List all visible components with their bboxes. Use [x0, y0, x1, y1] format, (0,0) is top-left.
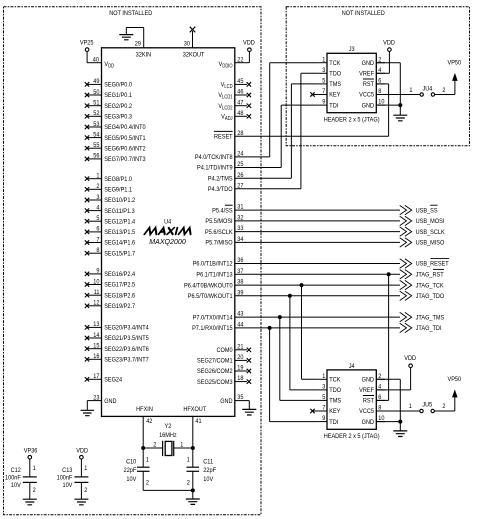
svg-text:P4.1/TDI/INT9: P4.1/TDI/INT9 — [197, 164, 233, 172]
svg-text:JU5: JU5 — [422, 401, 432, 409]
svg-text:VP36: VP36 — [24, 447, 38, 455]
J3 pin 7 KEY — [310, 88, 340, 99]
wire TDI (J3 pin9 to pin 25) — [235, 105, 319, 167]
pin 39 P6.5/T0/WKOUT1 — [188, 289, 244, 300]
svg-text:3: 3 — [96, 193, 100, 201]
svg-text:SEG13/P1.5: SEG13/P1.5 — [104, 229, 135, 237]
svg-text:SEG9/P1.1: SEG9/P1.1 — [104, 186, 132, 194]
dashed box NOT INSTALLED (J3 JTAG header section) — [286, 7, 469, 146]
svg-text:16MHz: 16MHz — [159, 432, 177, 440]
svg-text:USB_SCLK: USB_SCLK — [416, 228, 446, 236]
svg-text:10V: 10V — [62, 481, 73, 489]
svg-text:P7.0/TX0/INT14: P7.0/TX0/INT14 — [193, 314, 233, 322]
wire RESET net (pin 28 to J3 RST) — [235, 84, 389, 136]
svg-text:VP25: VP25 — [80, 39, 94, 47]
svg-text:HEADER 2 x 5 (JTAG): HEADER 2 x 5 (JTAG) — [324, 432, 380, 440]
wire crystal caps to ground — [143, 490, 193, 499]
svg-text:100nF: 100nF — [57, 474, 73, 482]
pin 56 SEG7/P0.7/INT3 (no connect) — [85, 152, 146, 163]
pin 32 P5.5/MOSI — [205, 214, 244, 225]
ground (J4) — [393, 431, 407, 437]
pin 41 HFXOUT lead — [193, 416, 202, 448]
svg-text:VCC5: VCC5 — [359, 91, 374, 99]
svg-text:P5.6/SCLK: P5.6/SCLK — [205, 228, 233, 236]
pin 44 P7.1/RX0/INT15 — [192, 321, 244, 332]
svg-text:VDD: VDD — [243, 39, 255, 47]
pin 18 SEG25/COM3 (no connect) — [197, 375, 251, 386]
pin 38 P6.4/T0B/WKOUT0 — [184, 278, 244, 289]
svg-text:SEG19/P2.7: SEG19/P2.7 — [104, 303, 135, 311]
svg-text:HEADER 2 x 5 (JTAG): HEADER 2 x 5 (JTAG) — [324, 116, 380, 124]
pin 29 32KIN wire to ground — [126, 28, 143, 48]
svg-text:VDD: VDD — [383, 39, 395, 47]
svg-text:VREF: VREF — [359, 70, 374, 78]
svg-text:10V: 10V — [126, 476, 137, 484]
svg-text:7: 7 — [96, 236, 100, 244]
svg-text:GND: GND — [104, 397, 117, 405]
J4 pin 8 VCC5 — [359, 404, 385, 415]
svg-text:TDO: TDO — [329, 387, 341, 395]
svg-text:VDD: VDD — [76, 447, 88, 455]
svg-text:VCC5: VCC5 — [359, 408, 374, 416]
pin 54 SEG5/P0.5/INT1 (no connect) — [85, 131, 146, 142]
pin 51 SEG2/P0.2 (no connect) — [85, 99, 133, 110]
pin 10 SEG17/P2.5 (no connect) — [85, 278, 136, 289]
pin 36 P6.0/T1B/INT12 — [193, 257, 244, 268]
svg-text:J3: J3 — [349, 46, 355, 54]
wire TMS (J3 pin5 to pin 26) — [235, 84, 319, 178]
svg-text:RST: RST — [363, 81, 374, 89]
svg-text:5: 5 — [322, 77, 326, 85]
wire J4 GND bus to ground — [376, 379, 400, 431]
svg-text:SEG7/P0.7/INT3: SEG7/P0.7/INT3 — [104, 156, 146, 164]
svg-text:SEG2/P0.2: SEG2/P0.2 — [104, 102, 132, 110]
pin 19 SEG26/COM2 (no connect) — [197, 364, 251, 375]
svg-text:2: 2 — [33, 487, 37, 495]
pin 55 SEG6/P0.6/INT2 (no connect) — [85, 142, 146, 153]
svg-text:1: 1 — [180, 441, 184, 449]
svg-text:TCK: TCK — [329, 376, 341, 384]
pin 7 SEG14/P1.6 (no connect) — [85, 236, 136, 247]
svg-text:SEG1/P0.1: SEG1/P0.1 — [104, 92, 132, 100]
svg-text:P4.0/TCK/INT8: P4.0/TCK/INT8 — [195, 154, 233, 162]
svg-text:NOT INSTALLED: NOT INSTALLED — [109, 10, 153, 18]
svg-text:6: 6 — [96, 225, 100, 233]
svg-text:SEG22/P3.6/INT6: SEG22/P3.6/INT6 — [104, 345, 149, 353]
pin 13 SEG20/P3.4/INT4 (no connect) — [85, 321, 149, 332]
svg-text:Y2: Y2 — [164, 422, 171, 430]
pin 8 SEG15/P1.7 (no connect) — [85, 247, 136, 258]
J3 pin 6 RST — [363, 77, 385, 88]
svg-text:47: 47 — [237, 99, 244, 107]
svg-text:35: 35 — [237, 394, 244, 402]
svg-text:GND: GND — [362, 59, 375, 67]
pin 16 SEG23/P3.7/INT7 (no connect) — [85, 353, 149, 364]
pin 33 P5.6/SCLK — [205, 225, 244, 236]
svg-text:SEG17/P2.5: SEG17/P2.5 — [104, 281, 135, 289]
junction (HFXOUT/Y2) — [191, 446, 195, 450]
svg-text:SEG24: SEG24 — [104, 376, 122, 384]
junction (J3 GND) — [398, 103, 402, 107]
pin 34 P5.7/MISO — [205, 236, 244, 247]
junction (JTAG_TMS) — [278, 315, 282, 319]
svg-text:6: 6 — [378, 77, 382, 85]
svg-text:2: 2 — [96, 183, 100, 191]
svg-text:1: 1 — [96, 172, 100, 180]
svg-text:2: 2 — [442, 86, 446, 94]
J3 pin 2 GND — [362, 56, 385, 67]
pin 25 P4.1/TDI/INT9 — [197, 161, 244, 172]
pin 20 SEG27/COM1 (no connect) — [197, 354, 251, 365]
pin 5 SEG12/P1.4 (no connect) — [85, 215, 136, 226]
svg-text:P4.2/TMS: P4.2/TMS — [208, 175, 233, 183]
svg-text:53: 53 — [93, 120, 100, 128]
svg-text:P5.4/SS: P5.4/SS — [212, 207, 232, 215]
capacitor C10 22pF 10V — [124, 448, 150, 490]
IC U4 MAXQ2000 body — [102, 48, 235, 417]
svg-text:JTAG_RST: JTAG_RST — [416, 271, 444, 279]
svg-text:7: 7 — [322, 88, 326, 96]
power arrow VP50 (JU4) — [435, 59, 462, 94]
ground (32KIN) — [119, 35, 133, 40]
svg-text:45: 45 — [237, 78, 244, 86]
pin 28 RESET — [214, 129, 244, 140]
pin 1 SEG8/P1.0 (no connect) — [85, 172, 133, 183]
pin 2 SEG9/P1.1 (no connect) — [85, 183, 133, 194]
svg-text:NOT INSTALLED: NOT INSTALLED — [342, 10, 386, 18]
svg-text:USB_MOSI: USB_MOSI — [416, 218, 445, 226]
pin 46 VLCD1 (no connect) — [218, 88, 251, 100]
net JTAG_RST (wire, chevron, label) — [235, 269, 444, 279]
svg-text:C10: C10 — [126, 458, 137, 466]
svg-text:1: 1 — [322, 372, 326, 380]
jumper JU4 — [385, 85, 446, 96]
svg-text:SEG6/P0.6/INT2: SEG6/P0.6/INT2 — [104, 145, 146, 153]
pin 24 P4.0/TCK/INT8 — [195, 150, 244, 161]
svg-text:VDD: VDD — [404, 355, 416, 363]
J4 pin 5 TMS — [319, 394, 341, 405]
wire JTAG_RST to J4 RST — [376, 274, 388, 400]
ground (C13) — [74, 499, 88, 505]
svg-text:42: 42 — [146, 417, 153, 425]
svg-text:50: 50 — [93, 88, 100, 96]
net JTAG_TDO (wire, chevron, label) — [235, 291, 445, 300]
svg-text:5: 5 — [322, 394, 326, 402]
svg-text:P6.1/T1/INT13: P6.1/T1/INT13 — [196, 271, 233, 279]
svg-text:1: 1 — [409, 403, 413, 411]
pin 6 SEG13/P1.5 (no connect) — [85, 225, 136, 236]
svg-text:MAXQ2000: MAXQ2000 — [149, 237, 186, 246]
svg-text:29: 29 — [135, 40, 142, 48]
svg-text:JTAG_TCK: JTAG_TCK — [416, 282, 445, 290]
pin 53 SEG4/P0.4/INT0 (no connect) — [85, 120, 146, 131]
svg-text:1: 1 — [322, 56, 326, 64]
svg-text:5: 5 — [96, 215, 100, 223]
svg-text:100nF: 100nF — [5, 474, 21, 482]
svg-text:32KIN: 32KIN — [136, 51, 151, 59]
svg-text:8: 8 — [378, 88, 382, 96]
svg-text:VP50: VP50 — [447, 376, 461, 384]
svg-text:11: 11 — [94, 289, 100, 297]
svg-text:SEG20/P3.4/INT4: SEG20/P3.4/INT4 — [104, 324, 149, 332]
svg-text:6: 6 — [378, 394, 382, 402]
wire TCK (J3 pin1 to pin 24) — [235, 63, 319, 157]
VDD terminal (J3 VREF) — [376, 39, 395, 73]
svg-text:4: 4 — [96, 204, 100, 212]
jumper JU5 — [385, 401, 446, 413]
svg-text:9: 9 — [322, 98, 326, 106]
svg-text:10V: 10V — [11, 481, 22, 489]
pin 3 SEG10/P1.2 (no connect) — [85, 193, 136, 204]
J4 pin 9 TDI — [319, 415, 339, 426]
net JTAG_TDI (wire, chevron, label) — [235, 323, 442, 332]
svg-text:2: 2 — [153, 441, 157, 449]
svg-text:8: 8 — [96, 247, 100, 255]
pin 52 SEG3/P0.3 (no connect) — [85, 110, 133, 121]
J4 pin 1 TCK — [319, 372, 341, 383]
svg-text:17: 17 — [93, 373, 100, 381]
net JTAG_TCK (wire, chevron, label) — [235, 280, 445, 289]
svg-text:SEG8/P1.0: SEG8/P1.0 — [104, 175, 132, 183]
pin 14 SEG21/P3.5/INT5 (no connect) — [85, 331, 149, 342]
svg-text:SEG15/P1.7: SEG15/P1.7 — [104, 250, 135, 258]
svg-text:RESET: RESET — [214, 133, 233, 141]
svg-text:52: 52 — [93, 110, 100, 118]
pin 47 VLCD2 (no connect) — [218, 99, 251, 111]
J3 pin 1 TCK — [319, 56, 341, 67]
ground (C12) — [23, 499, 37, 505]
svg-text:22pF: 22pF — [203, 466, 216, 474]
wire J3 GND bus to ground — [376, 63, 400, 115]
junction (JTAG_RST) — [387, 272, 391, 276]
pin 17 SEG24 (no connect) — [85, 373, 123, 384]
junction (JTAG_TCK) — [300, 283, 304, 287]
svg-text:21: 21 — [237, 343, 244, 351]
J3 pin 9 TDI — [319, 98, 339, 109]
svg-text:C11: C11 — [203, 458, 213, 466]
svg-text:HFXOUT: HFXOUT — [183, 406, 206, 414]
pin 27 P4.3/TDO — [208, 182, 244, 193]
svg-text:JTAG_TMS: JTAG_TMS — [416, 314, 445, 322]
svg-text:3: 3 — [322, 383, 326, 391]
J3 pin 8 VCC5 — [359, 88, 385, 99]
J3 pin 4 VREF — [359, 66, 385, 77]
pin 23 GND with ground — [87, 394, 117, 410]
svg-text:12: 12 — [93, 299, 100, 307]
svg-text:22: 22 — [237, 56, 244, 64]
svg-text:P7.1/RX0/INT15: P7.1/RX0/INT15 — [192, 325, 233, 333]
svg-text:7: 7 — [322, 404, 326, 412]
svg-text:TDI: TDI — [329, 102, 338, 110]
pin 35 GND with ground — [220, 394, 249, 410]
pin 15 SEG22/P3.6/INT6 (no connect) — [85, 342, 149, 353]
svg-text:SEG14/P1.6: SEG14/P1.6 — [104, 239, 135, 247]
J4 pin 4 VREF — [359, 383, 385, 394]
ground (pin 35) — [242, 409, 256, 415]
svg-text:RST: RST — [363, 397, 374, 405]
junction (crystal ground) — [191, 488, 195, 492]
net USB_MISO (wire, chevron, label) — [235, 238, 445, 247]
svg-text:10V: 10V — [203, 476, 214, 484]
ground (crystal) — [186, 499, 200, 504]
J4 pin 2 GND — [362, 372, 385, 383]
pin 37 P6.1/T1/INT13 — [196, 267, 244, 278]
svg-text:JTAG_TDI: JTAG_TDI — [416, 325, 442, 333]
dashed box NOT INSTALLED (MCU section) — [4, 7, 262, 515]
svg-text:SEG3/P0.3: SEG3/P0.3 — [104, 113, 132, 121]
svg-text:SEG5/P0.5/INT1: SEG5/P0.5/INT1 — [104, 134, 146, 142]
svg-text:1: 1 — [33, 465, 37, 473]
svg-text:J4: J4 — [349, 362, 355, 370]
ground (pin 23) — [81, 410, 95, 415]
J4 pin 3 TDO — [319, 383, 341, 394]
svg-text:40: 40 — [93, 56, 100, 64]
svg-text:SEG23/P3.7/INT7: SEG23/P3.7/INT7 — [104, 356, 149, 364]
svg-text:TCK: TCK — [329, 59, 341, 67]
net USB_MOSI (wire, chevron, label) — [235, 216, 445, 225]
power arrow VP50 (JU5) — [434, 376, 461, 411]
svg-text:COM0: COM0 — [217, 347, 234, 355]
J3 pin 3 TDO — [319, 66, 341, 77]
junction (J4 GND) — [398, 420, 402, 424]
svg-text:USB_RESET: USB_RESET — [416, 260, 449, 268]
svg-text:KEY: KEY — [329, 408, 340, 416]
svg-text:16: 16 — [93, 353, 100, 361]
MAXIM logo — [144, 228, 192, 235]
net USB_SS (wire, chevron, label) — [235, 205, 438, 215]
svg-text:P4.3/TDO: P4.3/TDO — [208, 186, 233, 194]
pin 9 SEG16/P2.4 (no connect) — [85, 267, 136, 278]
svg-text:JTAG_TDO: JTAG_TDO — [416, 293, 445, 301]
J3 pin 10 GND — [362, 98, 385, 109]
svg-text:TDI: TDI — [329, 418, 338, 426]
svg-text:1: 1 — [187, 456, 191, 464]
svg-text:SEG4/P0.4/INT0: SEG4/P0.4/INT0 — [104, 124, 146, 132]
svg-text:1: 1 — [84, 465, 88, 473]
svg-text:32KOUT: 32KOUT — [183, 51, 205, 59]
pin 12 SEG19/P2.7 (no connect) — [85, 299, 136, 310]
pin 49 SEG0/P0.0 (no connect) — [85, 78, 133, 89]
svg-text:56: 56 — [93, 152, 100, 160]
svg-text:KEY: KEY — [329, 91, 340, 99]
svg-text:3: 3 — [322, 66, 326, 74]
svg-text:P6.0/T1B/INT12: P6.0/T1B/INT12 — [193, 260, 233, 268]
capacitor C12 100nF 10V with terminal VP36 — [5, 447, 38, 499]
svg-text:18: 18 — [237, 375, 244, 383]
pin 22 VDDIO with terminal VDD — [219, 39, 256, 68]
junction (JTAG_TDI) — [268, 326, 272, 330]
wire JTAG_TDI to J4 TDI — [270, 328, 319, 422]
pin 40 VDD with terminal VP25 — [80, 39, 115, 69]
svg-text:9: 9 — [322, 415, 326, 423]
svg-text:SEG18/P2.6: SEG18/P2.6 — [104, 292, 135, 300]
svg-text:GND: GND — [220, 397, 233, 405]
svg-text:19: 19 — [237, 364, 244, 372]
junction (HFXIN/Y2) — [141, 446, 145, 450]
wire JTAG_TDO to J4 TDO — [290, 296, 319, 390]
svg-text:10: 10 — [93, 278, 100, 286]
svg-text:30: 30 — [184, 40, 191, 48]
svg-text:13: 13 — [93, 321, 100, 329]
wire JTAG_TCK to J4 TCK — [302, 285, 319, 379]
J4 pin 10 GND — [362, 415, 385, 426]
svg-text:9: 9 — [96, 267, 100, 275]
net USB_SCLK (wire, chevron, label) — [235, 227, 446, 236]
wire TDO (J3 pin3 to pin 27) — [235, 73, 319, 189]
svg-text:15: 15 — [93, 342, 100, 350]
svg-text:20: 20 — [237, 354, 244, 362]
svg-text:46: 46 — [237, 88, 244, 96]
svg-text:U4: U4 — [164, 218, 172, 226]
pin 48 VADJ (no connect) — [221, 109, 251, 121]
svg-text:1: 1 — [409, 86, 413, 94]
svg-text:SEG12/P1.4: SEG12/P1.4 — [104, 218, 135, 226]
svg-text:USB_MISO: USB_MISO — [416, 239, 445, 247]
svg-text:P5.7/MISO: P5.7/MISO — [205, 239, 232, 247]
svg-text:SEG16/P2.4: SEG16/P2.4 — [104, 271, 135, 279]
svg-text:54: 54 — [93, 131, 100, 139]
svg-text:TMS: TMS — [329, 81, 341, 89]
svg-text:51: 51 — [93, 99, 100, 107]
svg-text:USB_SS: USB_SS — [416, 207, 438, 215]
svg-text:P6.4/T0B/WKOUT0: P6.4/T0B/WKOUT0 — [184, 282, 233, 290]
svg-text:P6.5/T0/WKOUT1: P6.5/T0/WKOUT1 — [188, 293, 233, 301]
svg-text:14: 14 — [93, 331, 100, 339]
svg-text:JU4: JU4 — [422, 85, 432, 93]
connector J4 HEADER 2x5 (JTAG) body — [324, 362, 380, 440]
crystal Y2 16MHz — [143, 422, 193, 456]
svg-text:55: 55 — [93, 142, 100, 150]
pin 21 COM0 (no connect) — [217, 343, 252, 354]
net JTAG_TMS (wire, chevron, label) — [235, 312, 444, 321]
svg-text:2: 2 — [146, 479, 150, 487]
junction (JTAG_TDO) — [288, 294, 292, 298]
J4 pin 6 RST — [363, 394, 385, 405]
wire JTAG_TMS to J4 TMS — [280, 317, 319, 400]
VDD terminal (J4 VREF) — [376, 355, 416, 390]
svg-text:TDO: TDO — [329, 70, 341, 78]
pin 30 32KOUT (no connect) — [184, 27, 195, 48]
svg-text:SEG21/P3.5/INT5: SEG21/P3.5/INT5 — [104, 335, 149, 343]
svg-text:GND: GND — [362, 376, 375, 384]
svg-text:SEG27/COM1: SEG27/COM1 — [197, 357, 233, 365]
svg-text:SEG11/P1.3: SEG11/P1.3 — [104, 207, 135, 215]
svg-text:HFXIN: HFXIN — [136, 406, 153, 414]
svg-text:P5.5/MOSI: P5.5/MOSI — [205, 218, 232, 226]
capacitor C11 22pF 10V — [187, 448, 217, 490]
pin 31 P5.4/SS — [212, 203, 244, 214]
pin 43 P7.0/TX0/INT14 — [193, 310, 244, 321]
connector J3 HEADER 2x5 (JTAG) body — [324, 46, 380, 124]
pin 11 SEG18/P2.6 (no connect) — [85, 289, 136, 300]
svg-text:VP50: VP50 — [447, 59, 461, 67]
svg-text:48: 48 — [237, 109, 244, 117]
pin 4 SEG11/P1.3 (no connect) — [85, 204, 135, 215]
J3 pin 5 TMS — [319, 77, 341, 88]
svg-text:2: 2 — [84, 487, 88, 495]
svg-text:23: 23 — [93, 394, 100, 402]
svg-text:41: 41 — [195, 417, 202, 425]
svg-text:22pF: 22pF — [124, 466, 137, 474]
J4 pin 7 KEY — [310, 404, 340, 415]
svg-text:GND: GND — [362, 102, 375, 110]
svg-text:2: 2 — [442, 403, 446, 411]
svg-text:49: 49 — [93, 78, 100, 86]
svg-text:TMS: TMS — [329, 397, 341, 405]
pin 45 VLCD (no connect) — [221, 78, 251, 90]
svg-text:SEG10/P1.2: SEG10/P1.2 — [104, 197, 135, 205]
pin 26 P4.2/TMS — [208, 171, 244, 182]
